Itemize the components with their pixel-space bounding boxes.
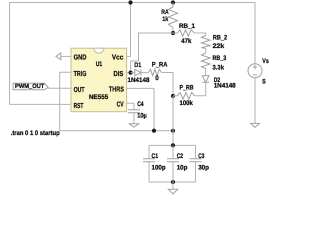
capacitor C1 leads (148, 145, 150, 182)
wire RST to left rail (10, 103, 71, 105)
source Vs minus (253, 74, 257, 76)
resistor RA leads (172, 3, 174, 34)
wire OUT to flag (48, 87, 71, 89)
wire RB_2 to RB_3 (205, 49, 207, 54)
gnd pointer GND pin (61, 55, 71, 57)
resistor RB_3 (201, 53, 210, 68)
svg-text:RB_3: RB_3 (213, 55, 227, 62)
node junction RA bottom (171, 31, 175, 35)
capacitor C2 leads (172, 145, 174, 182)
svg-text:0: 0 (155, 75, 159, 82)
svg-text:PWM_OUT: PWM_OUT (15, 83, 45, 90)
diode D1 leads (131, 72, 149, 74)
svg-text:P_RA: P_RA (152, 61, 168, 68)
svg-text:.tran 0 1 0 startup: .tran 0 1 0 startup (11, 130, 60, 137)
capacitor C1 (143, 159, 155, 162)
svg-text:3.3k: 3.3k (213, 65, 225, 72)
wire RA bottom to DIS (131, 33, 173, 73)
svg-text:30p: 30p (198, 164, 209, 171)
node junction THRS bottom (152, 129, 156, 133)
ground C4 (129, 124, 138, 127)
source Vs plus (253, 65, 257, 69)
svg-text:RST: RST (74, 101, 84, 110)
chip U1 notch (94, 48, 104, 53)
svg-text:C1: C1 (152, 153, 159, 160)
svg-text:C3: C3 (198, 153, 204, 160)
wire RB_3 to D2 (205, 69, 207, 76)
resistor RB_1 (178, 30, 195, 36)
wire DIS stub (127, 72, 131, 74)
node junction top rail RA (171, 0, 175, 4)
potentiometer P_RA (149, 69, 162, 75)
ground Vs (251, 123, 260, 127)
wire cap node vertical (172, 96, 174, 145)
svg-text:Vcc: Vcc (112, 53, 123, 62)
resistor RB_2 (201, 36, 210, 49)
svg-text:RB_2: RB_2 (213, 35, 228, 42)
capacitor C4 wire from CV (127, 103, 134, 110)
node junction top rail Vcc (128, 0, 132, 4)
wire THRS down (127, 88, 154, 130)
svg-text:10p: 10p (177, 164, 188, 171)
source Vs circle (248, 64, 262, 78)
capacitor C3 (190, 159, 202, 162)
svg-text:1N4148: 1N4148 (128, 77, 150, 84)
wire bank to ground (172, 182, 174, 189)
wire D2 to P_RB (195, 82, 206, 96)
node junction bank top (171, 143, 175, 147)
resistor RB_1 leads (173, 33, 206, 36)
svg-text:CV: CV (117, 100, 124, 109)
svg-text:RB_1: RB_1 (179, 23, 195, 30)
svg-text:100p: 100p (152, 164, 166, 171)
capacitor bank bottom wire (149, 181, 196, 183)
wire C4 to ground (133, 113, 135, 124)
svg-text:THRS: THRS (109, 85, 124, 94)
wire P_RA to cap node (162, 73, 173, 97)
svg-text:P_RB: P_RB (180, 84, 194, 91)
svg-text:GND: GND (74, 53, 87, 62)
diode D2 (202, 76, 209, 83)
svg-text:1k: 1k (162, 16, 168, 23)
resistor RA (168, 7, 177, 28)
capacitor C4 (128, 110, 140, 113)
ground capacitor bank (168, 189, 177, 194)
capacitor C3 leads (195, 145, 197, 182)
wire P_RB left lead (173, 95, 178, 97)
potentiometer P_RB (178, 92, 195, 99)
svg-text:D1: D1 (134, 62, 141, 69)
svg-text:C2: C2 (177, 153, 184, 160)
node junction cap top P_RB (171, 94, 175, 98)
svg-text:5: 5 (262, 79, 266, 86)
capacitor C2 (167, 159, 179, 162)
svg-text:10µ: 10µ (137, 112, 147, 119)
node junction bank bottom (171, 180, 175, 184)
svg-text:100k: 100k (180, 100, 194, 107)
svg-text:OUT: OUT (74, 85, 85, 94)
node junction bottom cap (171, 129, 175, 133)
svg-text:RA: RA (161, 9, 169, 16)
svg-text:DIS: DIS (114, 69, 124, 78)
svg-text:1N4148: 1N4148 (214, 83, 236, 90)
wire top rail Vcc net (10, 3, 255, 105)
wire TRIG down and bottom net (60, 72, 173, 130)
net flag PWM_OUT (13, 83, 48, 90)
wire Vcc drop to pin 8 (127, 3, 131, 57)
capacitor bank top wire (149, 144, 196, 146)
svg-text:TRIG: TRIG (74, 69, 87, 78)
svg-text:22k: 22k (213, 43, 225, 50)
svg-text:NE555: NE555 (89, 94, 109, 101)
chip U1 NE555 body (71, 48, 127, 111)
wire Vs to ground (254, 78, 256, 124)
svg-text:47k: 47k (181, 38, 191, 45)
svg-text:Vs: Vs (262, 58, 269, 65)
svg-text:U1: U1 (96, 61, 103, 68)
svg-text:C4: C4 (137, 101, 144, 108)
node junction DIS (129, 71, 133, 75)
diode D1 (135, 69, 141, 75)
